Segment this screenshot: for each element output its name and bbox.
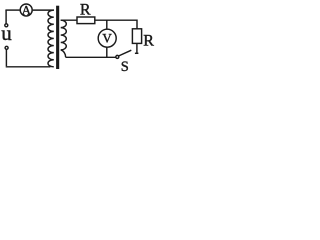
- svg-text:S: S: [121, 59, 129, 74]
- wire: ammeter to primary coil: [33, 9, 54, 11]
- wire: top-left horizontal from corner to ammeter: [5, 9, 19, 11]
- svg-text:R: R: [143, 33, 154, 50]
- transformer T1 core: [56, 6, 59, 69]
- node: top input terminal: [5, 24, 8, 27]
- voltmeter V1 circle: [98, 29, 116, 47]
- svg-text:V: V: [102, 31, 112, 46]
- svg-text:A: A: [22, 2, 32, 17]
- wire: resistor to top-right corner, down to vertical resistor: [95, 20, 137, 29]
- background: [0, 0, 156, 74]
- switch S fixed contact tick: [135, 52, 139, 54]
- wire: voltmeter bottom stub: [106, 48, 108, 58]
- wire: secondary top to resistor box: [61, 19, 77, 21]
- transformer T1 primary coil: [48, 10, 54, 67]
- svg-text:R: R: [80, 2, 91, 19]
- wire: bottom-left horizontal to primary coil bottom: [6, 66, 51, 68]
- transformer T1 secondary coil: [61, 20, 67, 57]
- resistor R (right, vertical box): [132, 29, 141, 44]
- wire: bottom-right horizontal from secondary to switch pivot: [65, 56, 115, 58]
- resistor R (top, horizontal box): [77, 17, 95, 24]
- node: bottom input terminal: [5, 46, 8, 49]
- wire: bottom terminal down to bottom-left corner: [5, 49, 7, 66]
- wire: left vertical from corner down to top terminal: [5, 10, 7, 24]
- svg-text:u: u: [1, 21, 12, 45]
- wire: stub below vertical resistor to switch contact: [136, 43, 138, 53]
- switch S pivot node: [116, 55, 119, 58]
- switch S lever: [119, 50, 132, 56]
- wire: voltmeter top stub: [106, 20, 108, 29]
- ammeter A1 circle: [20, 4, 32, 16]
